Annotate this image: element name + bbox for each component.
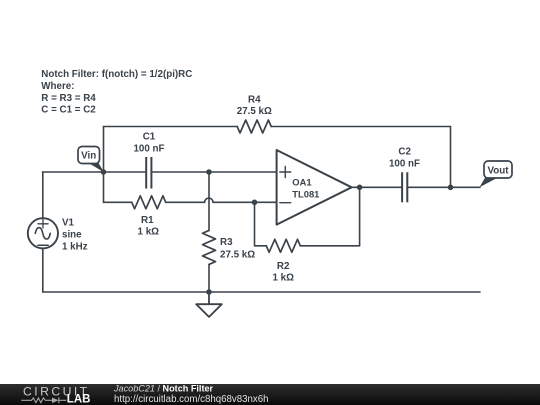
svg-text:R1: R1 — [141, 215, 154, 226]
svg-text:C = C1 = C2: C = C1 = C2 — [41, 105, 96, 116]
svg-text:27.5 kΩ: 27.5 kΩ — [220, 250, 255, 261]
svg-text:1 kHz: 1 kHz — [62, 241, 88, 252]
svg-text:JacobC21 / Notch Filter: JacobC21 / Notch Filter — [113, 384, 214, 394]
svg-text:R4: R4 — [248, 94, 261, 105]
svg-text:1 kΩ: 1 kΩ — [272, 272, 294, 283]
svg-text:Where:: Where: — [41, 81, 74, 92]
svg-text:http://circuitlab.com/c8hq68v8: http://circuitlab.com/c8hq68v83nx6h — [114, 394, 269, 405]
svg-text:Vin: Vin — [81, 151, 96, 162]
svg-text:Vout: Vout — [487, 165, 509, 176]
svg-text:TL081: TL081 — [292, 189, 319, 200]
svg-text:sine: sine — [62, 229, 82, 240]
svg-text:100 nF: 100 nF — [133, 144, 164, 155]
svg-text:OA1: OA1 — [292, 176, 311, 187]
svg-text:27.5 kΩ: 27.5 kΩ — [237, 106, 272, 117]
svg-text:LAB: LAB — [67, 394, 91, 405]
svg-text:1 kΩ: 1 kΩ — [138, 227, 160, 238]
svg-text:100 nF: 100 nF — [389, 159, 420, 170]
svg-text:C1: C1 — [143, 132, 156, 143]
svg-text:Notch Filter: f(notch) = 1/2(p: Notch Filter: f(notch) = 1/2(pi)RC — [41, 69, 192, 80]
svg-text:R = R3 = R4: R = R3 = R4 — [41, 93, 96, 104]
svg-text:R2: R2 — [277, 261, 290, 272]
svg-text:R3: R3 — [220, 237, 233, 248]
svg-text:V1: V1 — [62, 217, 75, 228]
svg-text:C2: C2 — [398, 147, 411, 158]
